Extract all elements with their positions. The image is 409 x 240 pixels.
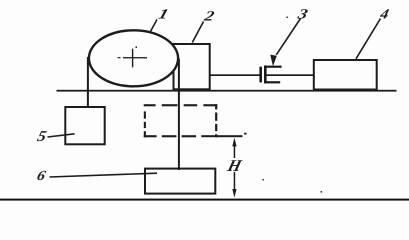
block 2 <box>174 44 210 89</box>
label 5 <box>36 129 48 145</box>
leader to 6 <box>50 173 158 177</box>
leader to 4 <box>356 19 381 59</box>
support line to block 5 <box>87 57 89 107</box>
label 4 <box>378 7 391 23</box>
main vertical shaft to block 6 <box>178 59 180 171</box>
dimension letter H <box>225 156 245 175</box>
label 3 <box>295 6 309 22</box>
clutch 3 bracket <box>264 65 282 83</box>
block 6 <box>145 169 215 194</box>
ground line (main horizontal datum) <box>57 90 397 92</box>
bottom border line <box>0 199 409 201</box>
leader to 5 <box>48 134 75 137</box>
dimension line H (vertical with arrows) <box>232 138 236 198</box>
extension line right of phantom block <box>201 135 242 137</box>
label 2 <box>202 8 216 24</box>
shaft between block 2 and clutch 3 <box>209 74 260 76</box>
block 4 <box>314 60 377 90</box>
leader to 2 <box>192 22 203 43</box>
label 1 <box>157 6 171 22</box>
scan speckles <box>263 17 323 193</box>
leader to 1 <box>150 20 157 32</box>
center mark of roller <box>118 47 148 68</box>
clutch 3 left plate <box>259 67 262 83</box>
leader to 3 with arrow <box>276 19 300 55</box>
roller 1 (ellipse) <box>89 30 178 86</box>
phantom block (dashed), hand-placed dashes <box>144 104 218 137</box>
block 5 <box>65 107 104 144</box>
label 6 <box>35 169 47 184</box>
shaft between clutch 3 and block 4 <box>267 74 315 76</box>
